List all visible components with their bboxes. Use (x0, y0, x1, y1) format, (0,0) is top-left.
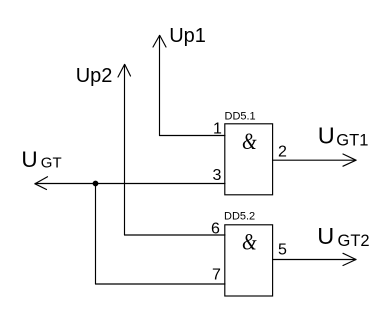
svg-text:5: 5 (278, 242, 287, 259)
svg-text:Up1: Up1 (169, 25, 206, 47)
svg-text:GT: GT (41, 155, 62, 172)
svg-text:7: 7 (212, 267, 221, 284)
and-gate U1 body DD5.1 (225, 124, 273, 195)
svg-text:GT2: GT2 (338, 232, 370, 250)
svg-text:GT1: GT1 (336, 132, 368, 150)
arrow UGT1 head (343, 154, 356, 166)
wire output pin 5 (273, 259, 357, 261)
arrow UGT head (35, 177, 48, 190)
svg-text:DD5.1: DD5.1 (225, 111, 256, 123)
svg-text:U: U (318, 123, 335, 149)
wire Up2 to pin 6 (125, 234, 226, 236)
arrow UGT2 head (343, 253, 356, 265)
svg-text:Up2: Up2 (76, 65, 113, 87)
svg-text:6: 6 (211, 221, 220, 238)
wire UGT to pin 3 (35, 183, 225, 185)
svg-text:3: 3 (213, 167, 222, 184)
wire Up2 vertical (124, 65, 126, 236)
wire Up1 to pin 1 (160, 135, 226, 137)
arrow Up2 head (118, 65, 131, 78)
svg-text:1: 1 (213, 121, 222, 138)
arrow Up1 head (153, 36, 166, 48)
svg-text:DD5.2: DD5.2 (224, 211, 255, 223)
svg-text:&: & (242, 229, 257, 255)
label UGT (21, 147, 61, 172)
svg-text:2: 2 (278, 144, 287, 161)
svg-text:&: & (242, 128, 257, 154)
svg-text:U: U (317, 223, 334, 249)
wire to pin 7 (96, 283, 226, 285)
wire output pin 2 (273, 159, 357, 161)
node junction dot (93, 181, 99, 187)
and-gate U2 body DD5.2 (225, 225, 273, 296)
label UGT1 (318, 123, 369, 150)
label UGT2 (317, 223, 369, 250)
wire Up1 vertical (159, 36, 161, 136)
svg-text:U: U (21, 147, 37, 172)
wire node drop vertical (95, 184, 97, 285)
